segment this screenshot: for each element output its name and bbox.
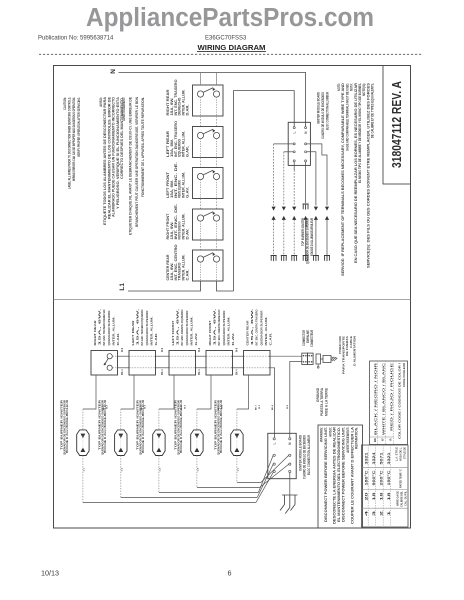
- connector arrow down: [282, 207, 286, 211]
- svg-text:CODE COULEUR: CODE COULEUR: [402, 363, 406, 387]
- connector arrow down: [292, 207, 296, 211]
- connector arrow up / harness wire: [292, 216, 296, 220]
- svg-text:BK-4: BK-4: [161, 369, 164, 375]
- wire connector to spark module N: [290, 362, 302, 438]
- svg-text:BOUGIE D ALLUMAGE-BRULEUR: BOUGIE D ALLUMAGE-BRULEUR: [142, 400, 145, 453]
- svg-text:E36GC70FSS3: E36GC70FSS3: [205, 36, 247, 42]
- svg-text:QUEMADOR SUPERIOR: QUEMADOR SUPERIOR: [259, 310, 263, 346]
- svg-text:3324: 3324: [372, 452, 376, 464]
- svg-text:15A, 6W.: 15A, 6W.: [250, 308, 254, 345]
- svg-text:GAGE AND COMPARABLE TERMINALS: GAGE AND COMPARABLE TERMINALS MUST BE US…: [345, 83, 349, 151]
- svg-text:REPARATION.: REPARATION.: [355, 427, 359, 449]
- svg-text:BK: BK: [373, 438, 377, 442]
- svg-text:EL MISMO TIPO DE ALAMBRE Y DE: EL MISMO TIPO DE ALAMBRE Y DE MEDIDOR Y …: [358, 83, 362, 183]
- svg-text:QUEMADOR DE ENCENDIDO SUPERIOR: QUEMADOR DE ENCENDIDO SUPERIOR: [305, 218, 309, 264]
- wire interconnect: [200, 199, 202, 210]
- wire U1 row2 right: [307, 144, 327, 206]
- svg-text:BLACK / NEGRO / NOIR: BLACK / NEGRO / NOIR: [374, 363, 378, 435]
- wire interconnect: [200, 158, 202, 168]
- svg-text:FONCTIONNEMENT DE L APPAREIL A: FONCTIONNEMENT DE L APPAREIL APRES TOUTE…: [141, 97, 145, 197]
- part number box 318047112 REV. A: [383, 66, 411, 185]
- svg-text:ETIQUETER CHAQUE FIL AVANT LE: ETIQUETER CHAQUE FIL AVANT LE DEBRANCHEM…: [128, 96, 132, 235]
- svg-text:L: L: [273, 442, 277, 444]
- svg-text:318047112 REV. A: 318047112 REV. A: [390, 81, 404, 168]
- svg-text:INT. ENC. CENTRO TRASERO: INT. ENC. CENTRO TRASERO: [255, 309, 259, 345]
- svg-text:BOUGIE D ALLUMAGE-BRULEUR: BOUGIE D ALLUMAGE-BRULEUR: [310, 218, 314, 256]
- wire igniter E4 return: [196, 456, 198, 488]
- wire L1 to SW5: [128, 281, 201, 291]
- svg-text:BRANCHEMENT PEUT CAUSER UNE OP: BRANCHEMENT PEUT CAUSER UNE OPERATION DA…: [135, 96, 139, 227]
- burner switch B2 LEFT REAR: [129, 351, 156, 376]
- svg-text:15A, 6W.: 15A, 6W.: [98, 308, 102, 345]
- svg-text:BK-4: BK-4: [235, 369, 238, 375]
- surface switch SW2 LEFT REAR: [193, 127, 224, 158]
- svg-text:INTER. ALLUM.: INTER. ALLUM.: [111, 316, 115, 345]
- svg-text:CALIBRE DEL: CALIBRE DEL: [400, 491, 404, 507]
- svg-text:W-6: W-6: [162, 347, 164, 352]
- svg-text:3321: 3321: [364, 452, 368, 464]
- wire riser to igniter board: [234, 91, 295, 291]
- svg-text:G.AR.: G.AR.: [186, 146, 190, 157]
- svg-text:INTER. ALLUM.: INTER. ALLUM.: [226, 316, 230, 345]
- svg-text:10/13: 10/13: [41, 569, 59, 578]
- svg-text:1: 1: [387, 511, 391, 516]
- svg-text:W-6: W-6: [236, 347, 238, 352]
- svg-text:BK-4: BK-4: [271, 404, 274, 410]
- svg-text:QUEMADOR SUPERIOR: QUEMADOR SUPERIOR: [107, 310, 111, 346]
- wire U1 row3 left: [284, 151, 293, 153]
- wire SW5 to igniter board L: [217, 281, 234, 291]
- svg-text:5071: 5071: [379, 452, 383, 464]
- surface switch SW1 RIGHT REAR: [193, 85, 224, 116]
- igniter module board U1: [288, 122, 310, 165]
- wire rail top: [112, 355, 117, 357]
- svg-text:CONNECTEUR: CONNECTEUR: [310, 329, 314, 347]
- svg-text:D.AR.: D.AR.: [116, 332, 120, 345]
- surface switch SW3 LEFT FRONT: [193, 168, 224, 199]
- svg-text:W-6: W-6: [199, 347, 201, 352]
- svg-text:G.AV.: G.AV.: [194, 332, 198, 346]
- svg-text:L: L: [293, 131, 297, 133]
- connector arrow down: [314, 207, 318, 211]
- ground pigtail: [317, 364, 319, 366]
- svg-text:W-6: W-6: [122, 347, 124, 352]
- svg-text:WARNING:: WARNING:: [320, 427, 324, 442]
- wire rail to spark module L: [274, 368, 276, 438]
- svg-text:HOJA DE L.: HOJA DE L.: [399, 447, 403, 461]
- wire rail bottom: [112, 367, 117, 369]
- svg-text:BK-4: BK-4: [121, 369, 124, 375]
- svg-text:BOUGIE D ALLUMAGE-BRULEUR: BOUGIE D ALLUMAGE-BRULEUR: [104, 400, 107, 453]
- svg-text:3321: 3321: [387, 452, 391, 464]
- burner switch B1 RIGHT REAR: [91, 351, 118, 376]
- warning box: [318, 425, 363, 528]
- wire burner B2 to igniter E2: [121, 375, 134, 409]
- wire switch SW1 to N bus: [200, 73, 202, 86]
- svg-text:INT. ENC. FRENTE IZQUIERDO: INT. ENC. FRENTE IZQUIERDO: [180, 309, 184, 345]
- wire igniter E1 return: [82, 456, 84, 503]
- svg-text:INT. ENC. TRASERO IZQUIERDO: INT. ENC. TRASERO IZQUIERDO: [140, 309, 144, 345]
- terminal: [303, 204, 309, 210]
- svg-text:DE CALIBRE ET DE TYPES EQUIVAL: DE CALIBRE ET DE TYPES EQUIVALENTS.: [371, 83, 375, 138]
- igniter E4 (top burner igniter): [191, 430, 203, 456]
- power cord plug P1: [316, 354, 321, 364]
- surface switch SW4 RIGHT FRONT: [193, 209, 224, 240]
- igniter E3 (top burner igniter): [153, 430, 165, 456]
- svg-text:INTER. ALLUM.: INTER. ALLUM.: [189, 316, 193, 345]
- wire igniter E3 return: [158, 456, 160, 493]
- wire gage table: [362, 445, 409, 527]
- wire burner B4 to igniter E4: [197, 375, 211, 409]
- svg-text:IGNITER MODULE BOARD: IGNITER MODULE BOARD: [317, 92, 321, 124]
- svg-text:6: 6: [228, 569, 232, 578]
- svg-text:3: 3: [372, 511, 376, 516]
- wire igniter E2 return: [120, 456, 122, 498]
- surface switch SW5 CENTER REAR: [193, 250, 224, 281]
- svg-text:15A, 6W.: 15A, 6W.: [176, 308, 180, 345]
- svg-text:C.AR.: C.AR.: [269, 332, 273, 345]
- svg-text:2: 2: [379, 511, 383, 516]
- svg-text:COLOR CODE / CODIGOS DE COLO: COLOR CODE / CODIGOS DE COLOR /: [398, 363, 402, 439]
- wire burner B5 to igniter E5: [237, 375, 249, 409]
- svg-text:DESCONECTE LA ENERGIA ANTES DE: DESCONECTE LA ENERGIA ANTES DE REALIZAR: [333, 426, 337, 524]
- wire burner B1 to igniter E1: [83, 375, 96, 409]
- svg-text:BOUGIE D ALLUMAGE-BRULEUR: BOUGIE D ALLUMAGE-BRULEUR: [180, 400, 183, 453]
- spark module board U2: [268, 433, 296, 478]
- svg-text:DISCONNECT POWER BEFORE SERVIC: DISCONNECT POWER BEFORE SERVICING UNIT.: [324, 427, 328, 522]
- svg-text:15A, 6W.: 15A, 6W.: [136, 308, 140, 345]
- svg-text:WIRING ERRORS CAN CAUSE IMPROP: WIRING ERRORS CAN CAUSE IMPROPER AND DAN…: [72, 97, 76, 181]
- svg-text:BK-7: BK-7: [256, 404, 258, 410]
- svg-text:CAL. DU FIL: CAL. DU FIL: [404, 491, 408, 506]
- igniter E2 (top burner igniter): [115, 430, 127, 456]
- svg-text:BLOC CONNECTION ALLUMEUR: BLOC CONNECTION ALLUMEUR: [325, 92, 329, 130]
- burner switch B4 RIGHT FRONT: [206, 351, 233, 376]
- svg-text:D.AR.: D.AR.: [186, 104, 190, 115]
- igniter E5 (top burner igniter): [231, 430, 243, 456]
- wire interconnect: [200, 240, 202, 250]
- svg-text:BOUGIE D ALLUMAGE-BRULEUR: BOUGIE D ALLUMAGE-BRULEUR: [220, 400, 223, 453]
- wire N bus: [119, 73, 306, 127]
- svg-text:4: 4: [364, 511, 368, 516]
- svg-text:18: 18: [387, 492, 391, 501]
- svg-text:CUADRO DE MODULO DE ENCENDIDO: CUADRO DE MODULO DE ENCENDIDO: [321, 92, 325, 139]
- svg-text:D.AV.: D.AV.: [186, 228, 190, 239]
- svg-text:L1: L1: [119, 283, 126, 291]
- svg-text:QUEMADOR SUPERIOR: QUEMADOR SUPERIOR: [185, 310, 189, 346]
- svg-text:INTER. ALLUM.: INTER. ALLUM.: [149, 316, 153, 345]
- wire U1 row2 left: [274, 143, 294, 145]
- wire U1 row3 right: [307, 152, 316, 206]
- svg-text:G.AV.: G.AV.: [186, 187, 190, 198]
- connector arrow up / harness wire: [304, 216, 308, 220]
- svg-text:20: 20: [364, 492, 368, 501]
- svg-text:INTER. ALLUM.: INTER. ALLUM.: [264, 316, 268, 345]
- svg-text:C.AR.: C.AR.: [186, 269, 190, 280]
- svg-text:LABEL ALL WIRES PRIOR TO DISCO: LABEL ALL WIRES PRIOR TO DISCONNECTION W…: [68, 97, 72, 189]
- svg-text:150°C: 150°C: [387, 469, 391, 485]
- wire bundle to spark module: [256, 472, 273, 502]
- svg-text:200°C: 200°C: [379, 469, 383, 485]
- burner switch B5 CENTER REAR: [244, 351, 271, 376]
- wire burner B3 to igniter E3: [159, 375, 174, 409]
- svg-text:CAUTION:: CAUTION:: [63, 97, 67, 110]
- svg-text:RIGHT FRONT: RIGHT FRONT: [208, 320, 212, 345]
- svg-text:INT. ENC. FRENTE DERECHO: INT. ENC. FRENTE DERECHO: [217, 309, 221, 345]
- horizontal separator line: [54, 299, 411, 301]
- svg-text:AppliancePartsPros.com: AppliancePartsPros.com: [86, 4, 374, 32]
- svg-text:D ALIMENTATION: D ALIMENTATION: [352, 335, 356, 366]
- svg-text:G.AR.: G.AR.: [154, 332, 158, 345]
- burner switch B1 contacts: [107, 354, 112, 359]
- svg-text:QUEMADOR SUPERIOR: QUEMADOR SUPERIOR: [222, 310, 226, 346]
- svg-text:18: 18: [372, 492, 376, 501]
- svg-text:AVERTISSEMENT:: AVERTISSEMENT:: [122, 97, 126, 121]
- igniter E1 (top burner igniter): [77, 430, 89, 456]
- svg-text:900°C: 900°C: [372, 469, 376, 485]
- svg-text:COUPER LE COURANT AVANT D EFFE: COUPER LE COURANT AVANT D EFFECTUER LA: [350, 426, 354, 524]
- connector arrow up / harness wire: [314, 216, 318, 220]
- svg-text:INT. ENC. TRASERO DERECHO: INT. ENC. TRASERO DERECHO: [102, 309, 106, 345]
- svg-text:WHITE / BLANCO / BLANC: WHITE / BLANCO / BLANC: [382, 363, 386, 435]
- chassis ground: [280, 495, 298, 514]
- ground wire from U2: [289, 473, 291, 496]
- svg-text:N: N: [110, 69, 117, 74]
- svg-text:STYLE DE: STYLE DE: [403, 447, 407, 459]
- wire igniter E5 return: [236, 456, 238, 483]
- svg-text:EL MANTENIMIENTO DEL ELECTRODO: EL MANTENIMIENTO DEL ELECTRODOMESTICO.: [337, 427, 341, 522]
- connector arrow down: [272, 207, 276, 211]
- dotted rule: [39, 53, 423, 55]
- svg-text:BK-4: BK-4: [198, 369, 201, 375]
- connector arrow up / harness wire: [325, 216, 329, 220]
- svg-text:WIRE GAGE: WIRE GAGE: [396, 491, 400, 506]
- diagram outer border: [54, 66, 411, 529]
- svg-text:QUEMADOR SUPERIOR: QUEMADOR SUPERIOR: [145, 310, 149, 346]
- burner switch B3 LEFT FRONT: [169, 351, 196, 376]
- connector blocks: [302, 353, 308, 364]
- svg-text:DISCONNECT POWER BEFORE SERVIC: DISCONNECT POWER BEFORE SERVICING UNIT.: [342, 427, 346, 522]
- svg-text:R: R: [388, 439, 392, 441]
- svg-text:D.AV.: D.AV.: [231, 332, 235, 346]
- svg-text:15A, 6W.: 15A, 6W.: [213, 308, 217, 345]
- svg-text:WIRING DIAGRAM: WIRING DIAGRAM: [198, 43, 266, 52]
- connector arrow up / harness wire: [282, 216, 286, 220]
- wire U1 row4 right: [305, 162, 307, 203]
- svg-text:AVISO:: AVISO:: [328, 427, 332, 437]
- svg-text:L.A. STYLE: L.A. STYLE: [395, 447, 399, 461]
- connector arrow up / harness wire: [272, 216, 276, 220]
- svg-text:W: W: [380, 438, 384, 441]
- color code table: [370, 361, 408, 445]
- svg-text:AVERTISSEMENT:: AVERTISSEMENT:: [346, 427, 350, 453]
- svg-text:LEFT REAR: LEFT REAR: [131, 319, 135, 345]
- svg-text:BLOC CONNECTION ALLUMEUR: BLOC CONNECTION ALLUMEUR: [307, 434, 311, 475]
- svg-text:RIGHT REAR: RIGHT REAR: [93, 320, 97, 346]
- svg-text:18: 18: [379, 492, 383, 501]
- svg-text:TOP BURNER IGNITER: TOP BURNER IGNITER: [301, 218, 305, 246]
- wire U1 row4 left: [293, 162, 295, 170]
- svg-text:CENTER REAR: CENTER REAR: [246, 320, 250, 346]
- svg-text:RATED TEMP. °C: RATED TEMP. °C: [399, 469, 403, 488]
- svg-text:BOUGIE D ALLUMAGE-BRULEUR: BOUGIE D ALLUMAGE-BRULEUR: [66, 400, 69, 453]
- svg-text:Publication No: 5995638714: Publication No: 5995638714: [38, 36, 114, 42]
- svg-text:RED / ROJO / ROUGE: RED / ROJO / ROUGE: [390, 363, 394, 431]
- svg-text:VERIFY PROPER OPERATION AFTER: VERIFY PROPER OPERATION AFTER SERVICING.: [77, 97, 81, 157]
- svg-text:MISE A LA TERRE: MISE A LA TERRE: [324, 387, 328, 416]
- svg-text:LEFT FRONT: LEFT FRONT: [171, 320, 175, 345]
- wire interconnect: [200, 116, 202, 127]
- svg-text:160°C: 160°C: [364, 469, 368, 485]
- connector arrow down: [325, 207, 329, 211]
